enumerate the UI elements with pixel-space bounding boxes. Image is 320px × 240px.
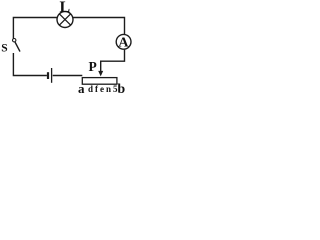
svg-text:A: A (118, 35, 129, 50)
svg-text:L: L (59, 0, 70, 16)
svg-text:S: S (1, 43, 7, 55)
svg-text:dfen5: dfen5 (88, 84, 120, 94)
svg-text:P: P (89, 59, 97, 74)
svg-text:a: a (78, 81, 85, 96)
